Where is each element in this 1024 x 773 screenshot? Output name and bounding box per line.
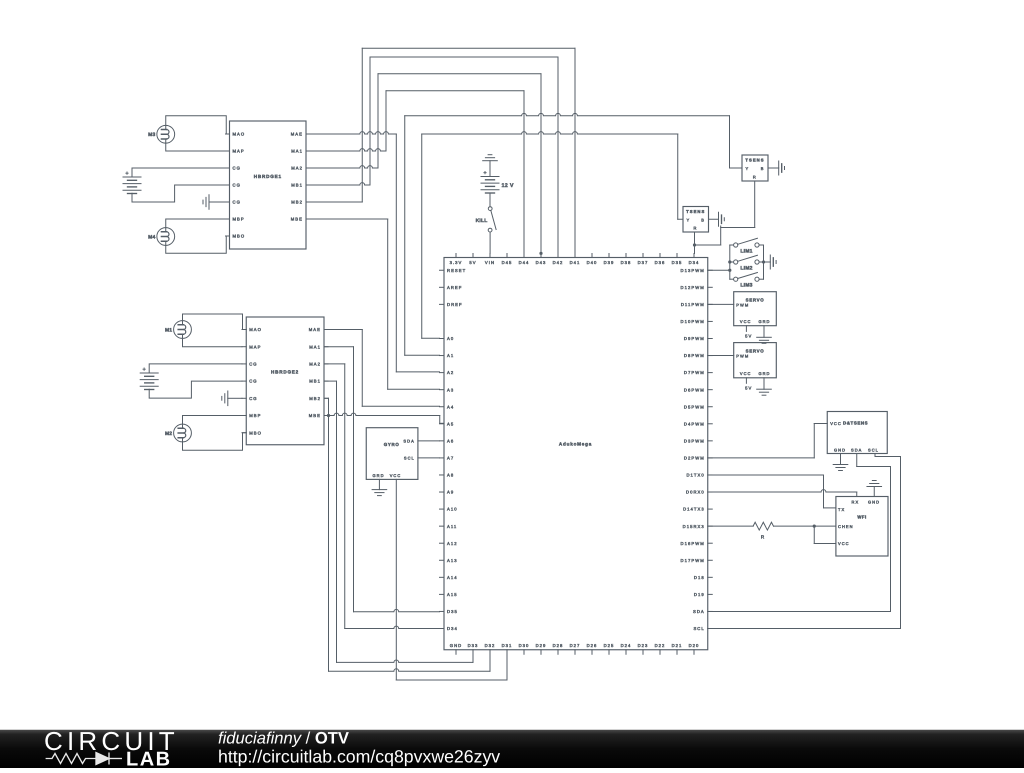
svg-text:D1TX0: D1TX0	[686, 473, 704, 478]
svg-text:MAO: MAO	[233, 132, 246, 137]
svg-text:D19: D19	[694, 592, 705, 597]
wire battery V2 - to CG	[149, 381, 242, 398]
footer text fiduciafinny / OTV	[218, 729, 500, 767]
svg-text:PWM: PWM	[736, 303, 749, 308]
svg-text:M1: M1	[165, 327, 172, 333]
wire SDA to D&TSENS SDA	[708, 610, 891, 612]
svg-text:MBE: MBE	[309, 413, 321, 418]
wire MB2 to D32	[324, 397, 329, 399]
svg-text:A3: A3	[447, 387, 454, 392]
wire MAE to A4	[324, 329, 362, 331]
svg-text:D20: D20	[689, 643, 700, 648]
svg-text:CHEN: CHEN	[838, 525, 854, 530]
wire GYRO SCL to A7	[418, 457, 440, 459]
svg-text:GRD: GRD	[373, 473, 385, 478]
svg-text:D9PWM: D9PWM	[684, 336, 705, 341]
svg-text:A0: A0	[447, 336, 454, 341]
svg-text:MA2: MA2	[291, 166, 303, 171]
wire A0 to TSENS2 Y	[421, 134, 423, 338]
svg-text:A14: A14	[447, 575, 458, 580]
H-bridge IC HBRDGE2	[242, 317, 328, 445]
wire MA1 to D35	[324, 346, 354, 348]
svg-text:D7PWM: D7PWM	[684, 370, 705, 375]
wire M4 to MBO	[166, 236, 230, 253]
svg-text:D22: D22	[655, 643, 666, 648]
wire TSENS1 R to node	[754, 181, 756, 228]
svg-text:MB1: MB1	[309, 379, 321, 384]
wire D0RX0 to WIFI RX	[708, 490, 857, 492]
motor M4	[148, 228, 175, 246]
wire M2 to MBO	[183, 433, 247, 451]
svg-text:TX: TX	[838, 507, 845, 512]
svg-text:+: +	[125, 171, 128, 177]
svg-text:D5PWM: D5PWM	[684, 404, 705, 409]
svg-text:VCC: VCC	[838, 542, 850, 547]
svg-text:SCL: SCL	[868, 448, 879, 453]
svg-text:D18: D18	[694, 575, 705, 580]
svg-text:D41: D41	[570, 260, 581, 265]
svg-text:D10PWM: D10PWM	[681, 319, 705, 324]
svg-text:D11PWM: D11PWM	[681, 302, 705, 307]
svg-text:D&TSENS: D&TSENS	[843, 421, 868, 426]
svg-text:HBRDGE2: HBRDGE2	[271, 370, 299, 375]
svg-text:MAO: MAO	[249, 327, 262, 332]
svg-text:D23: D23	[638, 643, 649, 648]
svg-text:M2: M2	[165, 431, 172, 437]
temperature sensor TSENS1	[742, 155, 768, 181]
svg-text:D38: D38	[621, 260, 632, 265]
svg-text:SDA: SDA	[851, 448, 862, 453]
svg-text:TSENS: TSENS	[745, 157, 764, 162]
wire MBE to A3	[306, 218, 388, 220]
svg-text:M3: M3	[148, 132, 155, 138]
svg-text:SDA: SDA	[403, 439, 414, 444]
svg-text:D24: D24	[621, 643, 632, 648]
ground (12V battery negative, flipped)	[483, 155, 498, 177]
wire M3 to MAO	[166, 116, 230, 134]
wire TSENS1 B to cell	[768, 167, 779, 169]
svg-text:A12: A12	[447, 541, 458, 546]
wire right rail to cell	[764, 261, 771, 263]
ground (SERVO2 GRD)	[757, 378, 772, 395]
svg-text:VCC: VCC	[740, 372, 752, 377]
svg-text:CG: CG	[233, 183, 241, 188]
svg-text:5V: 5V	[469, 260, 476, 265]
wire GYRO VCC to D31	[395, 479, 397, 680]
ground (SERVO1 GRD)	[757, 326, 772, 344]
microcontroller board U1 AdukoMega (Arduino Mega)	[440, 254, 713, 655]
svg-text:D32: D32	[485, 643, 496, 648]
svg-text:LAB: LAB	[126, 749, 172, 769]
sensor module D&TSENS	[827, 412, 887, 454]
wire M2 to MBP	[183, 416, 243, 425]
svg-text:A10: A10	[447, 507, 458, 512]
svg-text:LIM2: LIM2	[740, 265, 752, 271]
svg-text:D17PWM: D17PWM	[681, 558, 705, 563]
wire D13PWM to LIM rail	[708, 269, 730, 271]
svg-text:D30: D30	[519, 643, 530, 648]
wire TSENS2 B to cell	[709, 218, 719, 220]
svg-text:MBE: MBE	[291, 217, 303, 222]
svg-text:D35: D35	[672, 260, 683, 265]
svg-text:A13: A13	[447, 558, 458, 563]
svg-text:MA2: MA2	[309, 362, 321, 367]
svg-text:R: R	[694, 226, 698, 231]
svg-text:D6PWM: D6PWM	[684, 387, 705, 392]
svg-text:MAP: MAP	[233, 149, 245, 154]
svg-text:WFI: WFI	[857, 514, 866, 519]
wire CG to battery V1 +	[132, 168, 226, 177]
svg-text:CG: CG	[249, 362, 257, 367]
junction (left rail / D13)	[728, 269, 731, 272]
svg-text:D34: D34	[447, 626, 458, 631]
svg-text:D45: D45	[502, 260, 513, 265]
svg-text:SERVO: SERVO	[746, 348, 765, 353]
svg-text:A1: A1	[447, 353, 454, 358]
CircuitLab footer bar	[0, 730, 1024, 768]
svg-text:D34: D34	[689, 260, 700, 265]
switch LIM3	[730, 273, 764, 289]
battery cell (TSENS2 bias)	[718, 212, 720, 226]
svg-text:CG: CG	[249, 396, 257, 401]
wire CG to battery V2 +	[149, 364, 242, 373]
svg-text:HBRDGE1: HBRDGE1	[254, 174, 282, 179]
svg-text:D2PWM: D2PWM	[684, 456, 705, 461]
svg-text:A6: A6	[447, 438, 454, 443]
wire MA2 to D34	[324, 363, 345, 365]
svg-text:MA1: MA1	[291, 149, 303, 154]
svg-text:D26: D26	[587, 643, 598, 648]
wire SCL to D&TSENS SCL	[708, 628, 901, 630]
switch SW KILL	[476, 193, 497, 253]
wire MA1 to D44	[306, 149, 386, 151]
svg-text:D37: D37	[638, 260, 649, 265]
svg-text:+: +	[483, 170, 486, 176]
svg-text:A9: A9	[447, 490, 454, 495]
wire A1 to TSENS1 Y	[404, 116, 406, 356]
svg-text:GND: GND	[450, 643, 462, 648]
svg-text:D8PWM: D8PWM	[684, 353, 705, 358]
node 5V (SERVO2 VCC)	[745, 378, 752, 391]
svg-text:B: B	[701, 218, 705, 223]
junction (right rail LIM2)	[762, 260, 765, 263]
motor M3	[148, 125, 175, 143]
svg-text:D16PWM: D16PWM	[681, 541, 705, 546]
svg-text:GND: GND	[868, 500, 880, 505]
svg-text:D13PWM: D13PWM	[681, 268, 705, 273]
svg-text:MBP: MBP	[233, 217, 245, 222]
svg-text:D27: D27	[570, 643, 581, 648]
svg-text:RESET: RESET	[447, 268, 466, 273]
svg-text:AdukoMega: AdukoMega	[559, 442, 592, 447]
svg-text:MA1: MA1	[309, 344, 321, 349]
motor M2	[165, 424, 191, 442]
svg-text:D40: D40	[587, 260, 598, 265]
svg-text:SCL: SCL	[693, 626, 704, 631]
svg-text:GRD: GRD	[758, 320, 770, 325]
svg-text:A11: A11	[447, 524, 457, 529]
wire MBE to A5	[324, 413, 440, 415]
svg-text:D3PWM: D3PWM	[684, 438, 705, 443]
switch LIM2	[730, 255, 764, 270]
svg-text:TSENS: TSENS	[686, 209, 705, 214]
ground (HBRDGE1 CG)	[203, 195, 226, 210]
ground (GYRO GRD)	[372, 479, 387, 495]
svg-text:12 V: 12 V	[502, 182, 514, 188]
svg-text:VCC: VCC	[390, 473, 402, 478]
svg-text:D14TX3: D14TX3	[683, 507, 705, 512]
wire M1 to MAP	[183, 338, 243, 346]
svg-text:D31: D31	[502, 643, 513, 648]
wire battery V1 - to CG	[132, 185, 226, 202]
svg-text:MBO: MBO	[233, 234, 246, 239]
wire D1TX0 to WIFI TX	[708, 474, 824, 476]
svg-text:CG: CG	[233, 200, 241, 205]
svg-text:SDA: SDA	[693, 609, 705, 614]
ground (WIFI GND, flipped)	[867, 481, 882, 497]
svg-text:3.3V: 3.3V	[450, 260, 463, 265]
svg-text:A7: A7	[447, 456, 454, 461]
wire R to CHEN	[774, 525, 836, 527]
wire M3 to MAP	[166, 143, 226, 151]
svg-text:MAE: MAE	[291, 132, 303, 137]
svg-text:CG: CG	[233, 166, 241, 171]
battery cell (TSENS1 bias)	[778, 161, 780, 175]
battery V3 12 V	[481, 170, 514, 193]
svg-text:fiduciafinny / OTV: fiduciafinny / OTV	[218, 729, 349, 748]
svg-text:D15RX3: D15RX3	[683, 524, 705, 529]
svg-text:MB2: MB2	[291, 200, 303, 205]
ground (HBRDGE2 CG)	[222, 391, 242, 406]
svg-text:D29: D29	[536, 643, 547, 648]
wire D2PWM to D&TSENS VCC	[708, 457, 815, 459]
svg-text:M4: M4	[148, 234, 155, 240]
wire MA2 to D43	[306, 166, 378, 168]
svg-text:LIM1: LIM1	[740, 248, 752, 254]
wire M4 to MBP	[166, 219, 226, 228]
svg-text:R: R	[761, 535, 765, 540]
svg-text:RX: RX	[852, 500, 860, 505]
svg-text:MB2: MB2	[309, 396, 321, 401]
H-bridge IC HBRDGE1	[226, 121, 311, 249]
svg-text:D36: D36	[655, 260, 666, 265]
wire GYRO SDA to A6	[418, 440, 440, 442]
svg-text:VCC: VCC	[830, 422, 842, 427]
svg-text:DREF: DREF	[447, 302, 463, 307]
svg-text:MAP: MAP	[249, 344, 261, 349]
wire to WIFI VCC	[813, 526, 815, 543]
CircuitLab logo	[44, 726, 179, 771]
junction (CHEN/VCC)	[813, 525, 816, 528]
svg-text:GRD: GRD	[758, 372, 770, 377]
wire D8PWM to SERVO2	[708, 355, 734, 357]
gyroscope module GYRO	[366, 428, 418, 480]
svg-text:KILL: KILL	[476, 218, 488, 224]
svg-text:MB1: MB1	[291, 183, 303, 188]
node 5V (SERVO1 VCC)	[745, 326, 752, 339]
svg-text:LIM3: LIM3	[740, 283, 752, 289]
svg-text:D25: D25	[604, 643, 615, 648]
wire M1 to MAO	[183, 314, 247, 330]
svg-text:D39: D39	[604, 260, 615, 265]
svg-text:D4PWM: D4PWM	[684, 421, 705, 426]
svg-text:MBP: MBP	[249, 413, 261, 418]
svg-text:VIN: VIN	[485, 260, 495, 265]
svg-text:B: B	[761, 167, 765, 172]
svg-text:D21: D21	[672, 643, 683, 648]
temperature sensor TSENS2	[683, 207, 709, 233]
svg-text:5V: 5V	[745, 333, 752, 338]
svg-text:D28: D28	[553, 643, 564, 648]
svg-text:SERVO: SERVO	[746, 297, 765, 302]
servo module SERVO2	[734, 343, 777, 378]
ground (D&TSENS GND)	[833, 454, 848, 471]
svg-text:A5: A5	[447, 421, 454, 426]
svg-text:Y: Y	[746, 167, 750, 172]
junction (MB2/MBE node)	[327, 414, 330, 417]
wire to D34	[694, 232, 696, 254]
svg-text:MAE: MAE	[309, 327, 321, 332]
svg-text:AREF: AREF	[447, 285, 462, 290]
wifi module WFI	[836, 497, 888, 557]
switch LIM1	[730, 238, 764, 254]
svg-text:MBO: MBO	[249, 430, 262, 435]
svg-text:GND: GND	[834, 448, 846, 453]
svg-text:D12PWM: D12PWM	[681, 285, 705, 290]
battery cell (LIM bias)	[769, 255, 771, 269]
wire LIM right rail	[763, 245, 765, 279]
svg-text:A4: A4	[447, 404, 454, 409]
wire LIM left rail	[729, 245, 731, 279]
motor M1	[165, 321, 191, 339]
wire D11PWM to SERVO1	[708, 303, 734, 305]
svg-text:GYRO: GYRO	[384, 442, 400, 447]
svg-text:A15: A15	[447, 592, 458, 597]
svg-text:D42: D42	[553, 260, 564, 265]
svg-text:A8: A8	[447, 473, 454, 478]
svg-text:R: R	[753, 175, 757, 180]
wire MB2 to D41	[306, 201, 362, 203]
svg-text:D44: D44	[519, 260, 530, 265]
svg-text:PWM: PWM	[736, 354, 749, 359]
svg-text:http://circuitlab.com/cq8pvxwe: http://circuitlab.com/cq8pvxwe26zyv	[218, 747, 500, 767]
svg-text:5V: 5V	[745, 385, 752, 390]
wire MB1 to D33	[324, 380, 337, 382]
svg-text:D43: D43	[536, 260, 547, 265]
junction (TSENS2 R / D34)	[693, 243, 696, 246]
svg-text:D0RX0: D0RX0	[686, 490, 705, 495]
svg-text:CG: CG	[249, 379, 257, 384]
svg-text:A2: A2	[447, 370, 454, 375]
svg-text:Y: Y	[687, 218, 691, 223]
wire MB1 to D42	[306, 183, 370, 185]
wire MAE to A2	[306, 132, 396, 134]
servo module SERVO1	[734, 292, 777, 326]
svg-text:SCL: SCL	[404, 456, 415, 461]
battery V2 (HBRDGE2 supply)	[140, 367, 158, 390]
battery V1 (HBRDGE1 supply)	[123, 171, 141, 194]
svg-text:D35: D35	[447, 609, 458, 614]
junction (left rail LIM2)	[728, 260, 731, 263]
svg-text:VCC: VCC	[740, 320, 752, 325]
svg-text:D33: D33	[468, 643, 479, 648]
svg-text:+: +	[143, 367, 146, 373]
junction (D43)	[539, 252, 542, 255]
resistor R (D15RX3 to WIFI)	[708, 525, 753, 527]
